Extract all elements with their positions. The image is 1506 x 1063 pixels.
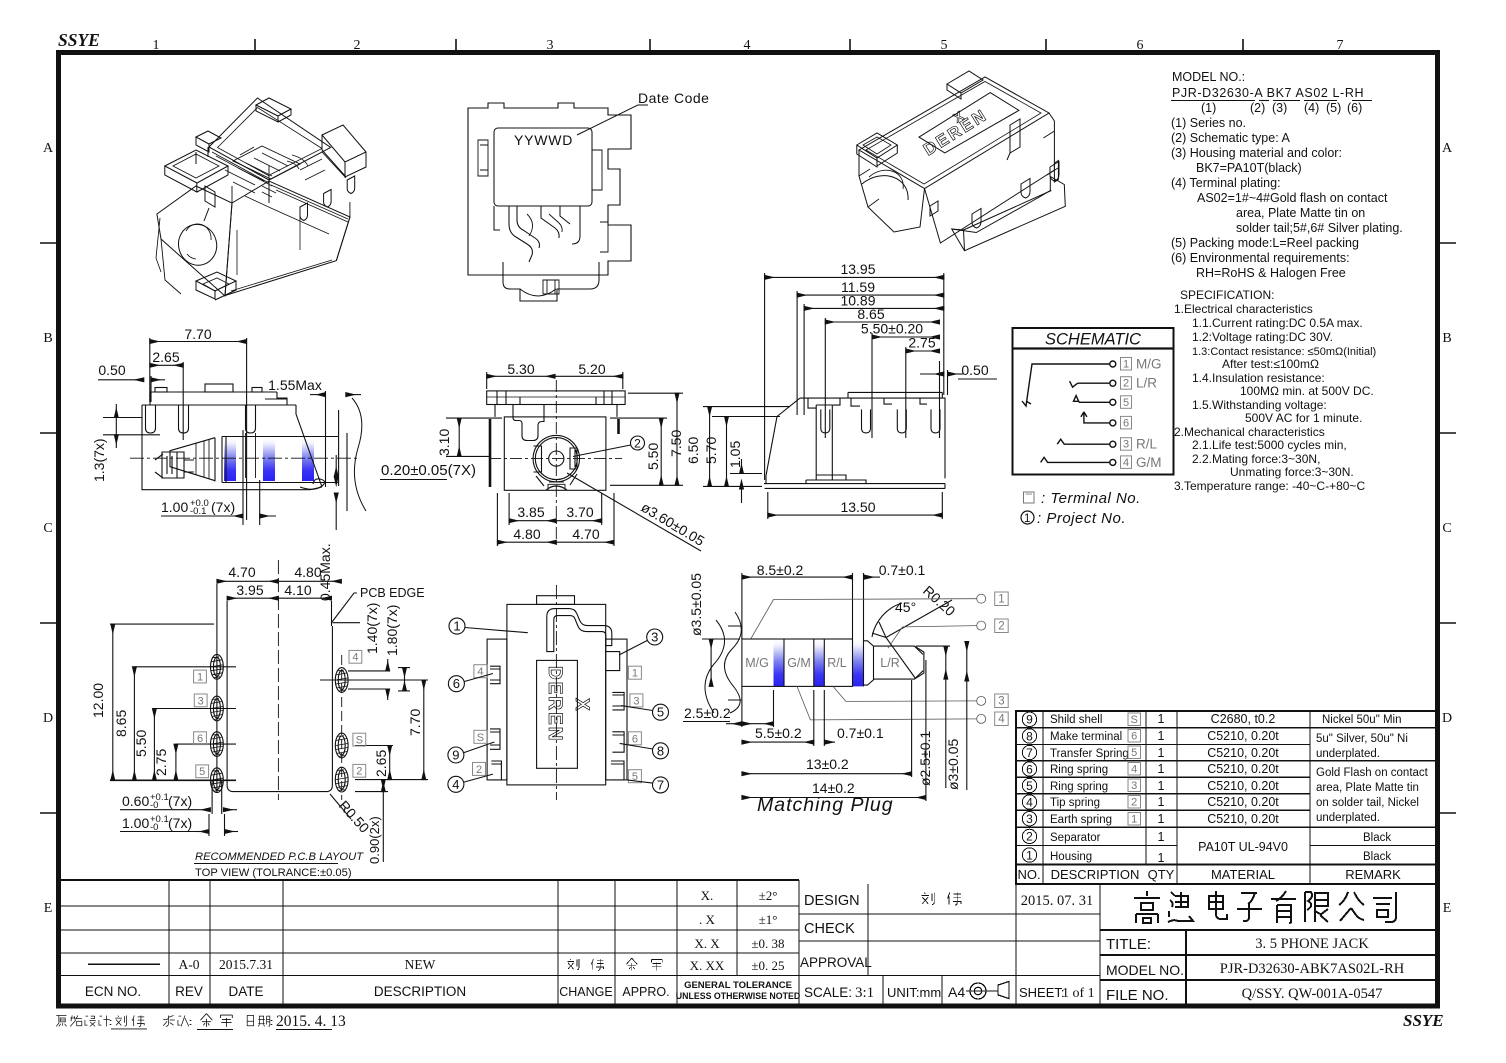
svg-text:9: 9	[452, 748, 459, 763]
svg-text:R/L: R/L	[1136, 437, 1158, 452]
svg-text:Nickel 50u" Min: Nickel 50u" Min	[1322, 714, 1402, 726]
svg-text:C: C	[1442, 521, 1451, 536]
svg-text:4: 4	[352, 652, 358, 664]
svg-text:area, Plate Matte tin on: area, Plate Matte tin on	[1236, 206, 1365, 220]
svg-text:NO.: NO.	[1017, 867, 1040, 882]
svg-text:solder tail;5#,6# Silver pl: solder tail;5#,6# Silver plating.	[1236, 221, 1403, 235]
svg-text:6: 6	[197, 733, 203, 745]
svg-text:6: 6	[1131, 731, 1137, 743]
svg-text:±1°: ±1°	[759, 912, 778, 927]
svg-text:5: 5	[657, 705, 664, 720]
svg-text:BK7=PA10T(black): BK7=PA10T(black)	[1196, 161, 1302, 175]
svg-text:(5) Packing mode:L=Reel pac: (5) Packing mode:L=Reel packing	[1171, 236, 1359, 250]
svg-text:2: 2	[1123, 378, 1129, 390]
svg-text:PJR-D32630-A BK7 AS02 L-RH: PJR-D32630-A BK7 AS02 L-RH	[1172, 86, 1364, 100]
svg-text:4: 4	[998, 714, 1005, 726]
svg-text:(3): (3)	[1272, 101, 1287, 115]
svg-text:R0.20: R0.20	[920, 582, 959, 619]
svg-text:S: S	[477, 732, 484, 744]
svg-text:: Terminal No.: : Terminal No.	[1041, 490, 1141, 507]
svg-text:500V AC for 1 minute.: 500V AC for 1 minute.	[1245, 411, 1362, 425]
svg-text:13±0.2: 13±0.2	[806, 756, 849, 772]
svg-text:0.50: 0.50	[961, 362, 988, 378]
svg-text:(3) Housing material and c: (3) Housing material and color:	[1171, 146, 1342, 160]
svg-text:(5): (5)	[1326, 101, 1341, 115]
svg-text:2: 2	[1131, 797, 1137, 809]
svg-text:5.50: 5.50	[133, 730, 149, 757]
svg-text:Date Code: Date Code	[638, 90, 709, 106]
svg-text:(1): (1)	[1201, 101, 1216, 115]
svg-text:PA10T UL-94V0: PA10T UL-94V0	[1198, 840, 1288, 854]
svg-text:1.55Max: 1.55Max	[268, 377, 322, 393]
svg-text:CHANGE: CHANGE	[559, 985, 612, 999]
svg-text:MODEL NO.:: MODEL NO.:	[1172, 70, 1245, 84]
svg-text:13.95: 13.95	[840, 261, 875, 277]
svg-text:C: C	[43, 521, 52, 536]
svg-text:Housing: Housing	[1050, 851, 1092, 863]
svg-text:4: 4	[1131, 764, 1137, 776]
svg-text:Earth spring: Earth spring	[1050, 814, 1112, 826]
svg-text:1.1.Current rating:DC 0.5A: 1.1.Current rating:DC 0.5A max.	[1192, 316, 1363, 330]
svg-text:4: 4	[744, 38, 751, 53]
svg-text:G/M: G/M	[787, 656, 811, 670]
svg-text:1 of 1: 1 of 1	[1062, 986, 1095, 1001]
svg-text:2.2.Mating force:3~30N,: 2.2.Mating force:3~30N,	[1192, 452, 1320, 466]
svg-text:S: S	[1131, 714, 1138, 726]
svg-text:ø3.60±0.05: ø3.60±0.05	[638, 499, 707, 549]
svg-text:5.20: 5.20	[578, 361, 605, 377]
svg-text:(2): (2)	[1250, 101, 1265, 115]
svg-text:6: 6	[1026, 762, 1033, 776]
svg-text:M/G: M/G	[745, 656, 769, 670]
svg-text:0.20±0.05(7X): 0.20±0.05(7X)	[381, 462, 476, 479]
svg-text:C2680, t0.2: C2680, t0.2	[1211, 712, 1276, 726]
svg-text:ø3±0.05: ø3±0.05	[945, 739, 961, 790]
svg-text:4.70: 4.70	[572, 526, 599, 542]
svg-text:APPRO.: APPRO.	[622, 985, 669, 999]
svg-text:G/M: G/M	[1136, 455, 1162, 470]
svg-text:DESCRIPTION: DESCRIPTION	[374, 984, 466, 999]
svg-text:1: 1	[1026, 848, 1033, 862]
svg-text:3.95: 3.95	[236, 582, 263, 598]
svg-text:1: 1	[1123, 359, 1129, 371]
svg-text:SSYE: SSYE	[1403, 1011, 1444, 1030]
svg-text:C5210, 0.20t: C5210, 0.20t	[1207, 729, 1279, 743]
svg-text:GENERAL TOLERANCE: GENERAL TOLERANCE	[684, 980, 792, 991]
svg-text:SPECIFICATION:: SPECIFICATION:	[1180, 288, 1274, 302]
svg-text:2: 2	[476, 764, 482, 776]
svg-text:3: 3	[198, 695, 204, 707]
svg-text:7.70: 7.70	[184, 326, 211, 342]
svg-text:. X: . X	[699, 912, 716, 927]
svg-text:(6) Environmental requiremen: (6) Environmental requirements:	[1171, 251, 1350, 265]
svg-text:C5210, 0.20t: C5210, 0.20t	[1207, 746, 1279, 760]
svg-text:1: 1	[1158, 851, 1165, 865]
svg-text:3.85: 3.85	[517, 504, 544, 520]
svg-text:: Project No.: : Project No.	[1037, 510, 1126, 527]
svg-text:1: 1	[197, 671, 203, 683]
svg-text:A: A	[43, 141, 54, 156]
svg-text:3.70: 3.70	[566, 504, 593, 520]
svg-text:4: 4	[1123, 457, 1129, 469]
svg-text:4: 4	[1026, 795, 1033, 809]
svg-text:UNIT:mm: UNIT:mm	[887, 985, 941, 1000]
svg-text:Make terminal: Make terminal	[1050, 731, 1122, 743]
svg-text:2: 2	[1026, 830, 1033, 844]
svg-text:X. X: X. X	[694, 936, 720, 951]
svg-text:3: 3	[651, 630, 658, 645]
svg-text:5: 5	[199, 766, 205, 778]
svg-text:(6): (6)	[1347, 101, 1362, 115]
svg-text:5u" Silver, 50u" Ni: 5u" Silver, 50u" Ni	[1316, 733, 1408, 745]
svg-text:3: 3	[998, 696, 1004, 708]
svg-text:APPROVAL: APPROVAL	[800, 955, 872, 970]
svg-text:4: 4	[452, 777, 459, 792]
svg-text:6: 6	[1137, 38, 1144, 53]
svg-text:0.7±0.1: 0.7±0.1	[837, 725, 884, 741]
svg-text:3: 3	[1131, 780, 1137, 792]
svg-text:Gold Flash on contact: Gold Flash on contact	[1316, 767, 1429, 779]
svg-text:8.65: 8.65	[113, 710, 129, 737]
svg-text:2015.7.31: 2015.7.31	[219, 957, 273, 972]
svg-text:A-0: A-0	[179, 957, 200, 972]
svg-text:±0. 38: ±0. 38	[751, 936, 784, 951]
svg-text:5: 5	[1131, 747, 1137, 759]
svg-text:2.5±0.2: 2.5±0.2	[684, 705, 731, 721]
svg-text:1: 1	[1158, 762, 1165, 776]
svg-text:3: 3	[547, 38, 554, 53]
svg-text:9: 9	[1026, 713, 1033, 727]
svg-text:1.05: 1.05	[727, 441, 743, 468]
svg-text:MODEL NO.: MODEL NO.	[1106, 962, 1184, 978]
svg-text:7.70: 7.70	[407, 709, 423, 736]
svg-text:1.2:Voltage rating:DC 30V.: 1.2:Voltage rating:DC 30V.	[1192, 330, 1333, 344]
svg-text:DESCRIPTION: DESCRIPTION	[1051, 867, 1140, 882]
svg-text:2.75: 2.75	[153, 749, 169, 776]
svg-text:AS02=1#~4#Gold flash on con: AS02=1#~4#Gold flash on contact	[1197, 191, 1388, 205]
svg-text:2: 2	[356, 766, 362, 778]
svg-text:12.00: 12.00	[90, 683, 106, 718]
svg-text:6: 6	[632, 733, 638, 745]
svg-text:0.50: 0.50	[98, 362, 125, 378]
svg-text:C5210, 0.20t: C5210, 0.20t	[1207, 779, 1279, 793]
svg-text:M/G: M/G	[1136, 357, 1162, 372]
svg-text:8.5±0.2: 8.5±0.2	[757, 562, 804, 578]
svg-text:8: 8	[657, 743, 664, 758]
svg-text:100MΩ min. at 500V DC.: 100MΩ min. at 500V DC.	[1240, 384, 1374, 398]
svg-text:Ring spring: Ring spring	[1050, 764, 1108, 776]
svg-text:A: A	[1442, 141, 1453, 156]
svg-text:Shild shell: Shild shell	[1050, 714, 1102, 726]
svg-text:(4): (4)	[1304, 101, 1319, 115]
svg-text:3: 3	[1123, 439, 1129, 451]
svg-text:0.60: 0.60	[122, 793, 149, 809]
svg-text:1: 1	[632, 668, 638, 680]
svg-text:L/R: L/R	[1136, 376, 1157, 391]
svg-text:SHEET:: SHEET:	[1019, 985, 1065, 1000]
svg-text:Q/SSY. QW-001A-0547: Q/SSY. QW-001A-0547	[1242, 986, 1383, 1002]
svg-text:2: 2	[354, 38, 361, 53]
svg-text:2015. 4. 13: 2015. 4. 13	[276, 1013, 346, 1030]
svg-text:ø3.5±0.05: ø3.5±0.05	[688, 573, 704, 636]
svg-text:L/R: L/R	[880, 656, 899, 670]
svg-text:2015. 07. 31: 2015. 07. 31	[1021, 893, 1094, 909]
svg-text:1: 1	[1024, 513, 1030, 525]
svg-text:2.Mechanical characteristics: 2.Mechanical characteristics	[1174, 425, 1325, 439]
svg-text:E: E	[1443, 901, 1452, 916]
svg-text:TITLE:: TITLE:	[1106, 936, 1151, 953]
svg-text:D: D	[43, 711, 53, 726]
svg-text:1: 1	[1158, 779, 1165, 793]
svg-text:R/L: R/L	[827, 656, 847, 670]
svg-text:Separator: Separator	[1050, 832, 1101, 844]
svg-text:ø2.5±0.1: ø2.5±0.1	[917, 731, 933, 786]
svg-text:Unmating force:3~30N.: Unmating force:3~30N.	[1230, 465, 1354, 479]
svg-text:6.50: 6.50	[685, 437, 701, 464]
svg-text:RH=RoHS & Halogen Free: RH=RoHS & Halogen Free	[1196, 266, 1346, 280]
svg-text:REV: REV	[175, 984, 203, 999]
svg-text:1.40(7x): 1.40(7x)	[364, 603, 380, 654]
svg-text:1.3(7x): 1.3(7x)	[91, 438, 107, 482]
svg-text:Tip spring: Tip spring	[1050, 797, 1100, 809]
svg-text:5: 5	[941, 38, 948, 53]
svg-text:2.1.Life test:5000 cycles m: 2.1.Life test:5000 cycles min,	[1192, 438, 1347, 452]
svg-text:underplated.: underplated.	[1316, 748, 1380, 760]
svg-text:Ring spring: Ring spring	[1050, 781, 1108, 793]
svg-text:5.50: 5.50	[645, 443, 661, 470]
svg-text:underplated.: underplated.	[1316, 812, 1380, 824]
svg-text:(7x): (7x)	[168, 815, 192, 831]
svg-text:(4) Terminal plating:: (4) Terminal plating:	[1171, 176, 1281, 190]
svg-text:4.70: 4.70	[228, 564, 255, 580]
svg-text:3: 3	[633, 695, 639, 707]
svg-text:2: 2	[634, 437, 641, 451]
svg-text:PJR-D32630-ABK7AS02L-RH: PJR-D32630-ABK7AS02L-RH	[1220, 961, 1405, 977]
svg-text:7: 7	[1337, 38, 1344, 53]
svg-text:1: 1	[1158, 746, 1165, 760]
svg-text:Matching Plug: Matching Plug	[757, 794, 894, 816]
svg-text:S: S	[356, 735, 363, 747]
svg-text:C5210, 0.20t: C5210, 0.20t	[1207, 795, 1279, 809]
svg-text:1: 1	[1158, 812, 1165, 826]
svg-text:13.50: 13.50	[840, 499, 875, 515]
svg-text:(7x): (7x)	[168, 793, 192, 809]
svg-text:ECN NO.: ECN NO.	[85, 984, 141, 999]
svg-text:Black: Black	[1363, 832, 1391, 844]
svg-text:3: 3	[1026, 812, 1033, 826]
svg-text:1.00: 1.00	[161, 499, 188, 515]
svg-text:REMARK: REMARK	[1345, 867, 1401, 882]
svg-text:SCALE:: SCALE:	[804, 985, 852, 1000]
svg-text:(2) Schematic type: A: (2) Schematic type: A	[1171, 131, 1290, 145]
svg-text:8: 8	[1026, 729, 1033, 743]
svg-text:1.80(7x): 1.80(7x)	[384, 605, 400, 656]
svg-text:CHECK: CHECK	[804, 921, 855, 937]
svg-text:2.75: 2.75	[908, 335, 935, 351]
svg-text:7.50: 7.50	[668, 430, 684, 457]
svg-text:±2°: ±2°	[759, 888, 778, 903]
svg-text:45°: 45°	[895, 599, 916, 615]
svg-text:C5210, 0.20t: C5210, 0.20t	[1207, 812, 1279, 826]
svg-text:-0.1: -0.1	[190, 506, 206, 517]
svg-text:1: 1	[1158, 729, 1165, 743]
svg-text:SCHEMATIC: SCHEMATIC	[1045, 331, 1141, 349]
svg-text:DATE: DATE	[228, 984, 263, 999]
svg-text:C5210, 0.20t: C5210, 0.20t	[1207, 762, 1279, 776]
svg-text:5: 5	[1026, 779, 1033, 793]
svg-text:NEW: NEW	[405, 957, 436, 972]
svg-text:E: E	[44, 901, 53, 916]
svg-text:D: D	[1442, 711, 1452, 726]
svg-text:1: 1	[453, 619, 460, 634]
svg-text:X: X	[571, 698, 592, 711]
svg-text:X.: X.	[701, 888, 714, 903]
svg-text:on solder tail, Nickel: on solder tail, Nickel	[1316, 797, 1419, 809]
svg-text:FILE NO.: FILE NO.	[1106, 987, 1169, 1004]
svg-text:YYWWD: YYWWD	[514, 132, 573, 148]
svg-text:TOP VIEW (TOLRANCE:±0.05): TOP VIEW (TOLRANCE:±0.05)	[195, 867, 352, 879]
svg-text:1: 1	[153, 38, 160, 53]
svg-text:±0. 25: ±0. 25	[751, 958, 784, 973]
svg-text:4.80: 4.80	[294, 564, 321, 580]
svg-text:1.Electrical characteristics: 1.Electrical characteristics	[1174, 302, 1313, 316]
svg-text:3.10: 3.10	[436, 429, 452, 456]
svg-text:2.65: 2.65	[373, 750, 389, 777]
svg-text:4.80: 4.80	[513, 526, 540, 542]
svg-text:MATERIAL: MATERIAL	[1211, 867, 1275, 882]
svg-text:1.00: 1.00	[122, 815, 149, 831]
svg-text:3. 5 PHONE JACK: 3. 5 PHONE JACK	[1255, 936, 1369, 952]
svg-text:5: 5	[1123, 397, 1129, 409]
svg-text:RECOMMENDED P.C.B LAYOUT: RECOMMENDED P.C.B LAYOUT	[195, 851, 364, 863]
svg-text:area, Plate Matte tin: area, Plate Matte tin	[1316, 782, 1419, 794]
svg-text:1: 1	[1131, 813, 1137, 825]
svg-text:0.7±0.1: 0.7±0.1	[879, 562, 926, 578]
svg-text:UNLESS OTHERWISE NOTED: UNLESS OTHERWISE NOTED	[676, 991, 800, 1001]
svg-text:2: 2	[998, 621, 1004, 633]
svg-text:5.30: 5.30	[507, 361, 534, 377]
svg-text:Black: Black	[1363, 851, 1391, 863]
svg-text:1: 1	[1158, 712, 1165, 726]
svg-text:B: B	[43, 331, 52, 346]
svg-text:6: 6	[1123, 417, 1129, 429]
svg-text:Transfer Spring: Transfer Spring	[1050, 748, 1129, 760]
svg-text:B: B	[1442, 331, 1451, 346]
svg-text:5.5±0.2: 5.5±0.2	[755, 725, 802, 741]
svg-text:SSYE: SSYE	[58, 30, 100, 50]
svg-text:(7x): (7x)	[211, 499, 235, 515]
svg-text:QTY: QTY	[1148, 867, 1175, 882]
svg-text:DEREN: DEREN	[544, 666, 565, 743]
svg-text:DESIGN: DESIGN	[804, 893, 860, 909]
svg-text:7: 7	[657, 777, 664, 792]
svg-text:X. XX: X. XX	[690, 958, 725, 973]
svg-text:1: 1	[1158, 830, 1165, 844]
svg-text:3.Temperature range: -40~C-+: 3.Temperature range: -40~C-+80~C	[1174, 479, 1365, 493]
svg-text:After test:≤100mΩ: After test:≤100mΩ	[1222, 357, 1319, 371]
svg-text:1.4.Insulation resistance:: 1.4.Insulation resistance:	[1192, 371, 1325, 385]
svg-text:1: 1	[1158, 795, 1165, 809]
svg-text:2.65: 2.65	[152, 349, 179, 365]
svg-text:3:1: 3:1	[855, 985, 874, 1001]
svg-text:7: 7	[1026, 746, 1033, 760]
svg-text:1.5.Withstanding voltage:: 1.5.Withstanding voltage:	[1192, 398, 1327, 412]
svg-text:4.10: 4.10	[284, 582, 311, 598]
svg-text:A4: A4	[948, 984, 965, 1000]
svg-text:6: 6	[453, 676, 460, 691]
svg-text:5.70: 5.70	[703, 437, 719, 464]
svg-text:PCB EDGE: PCB EDGE	[360, 586, 425, 600]
svg-text:1: 1	[998, 594, 1004, 606]
svg-text:(1) Series no.: (1) Series no.	[1171, 116, 1246, 130]
